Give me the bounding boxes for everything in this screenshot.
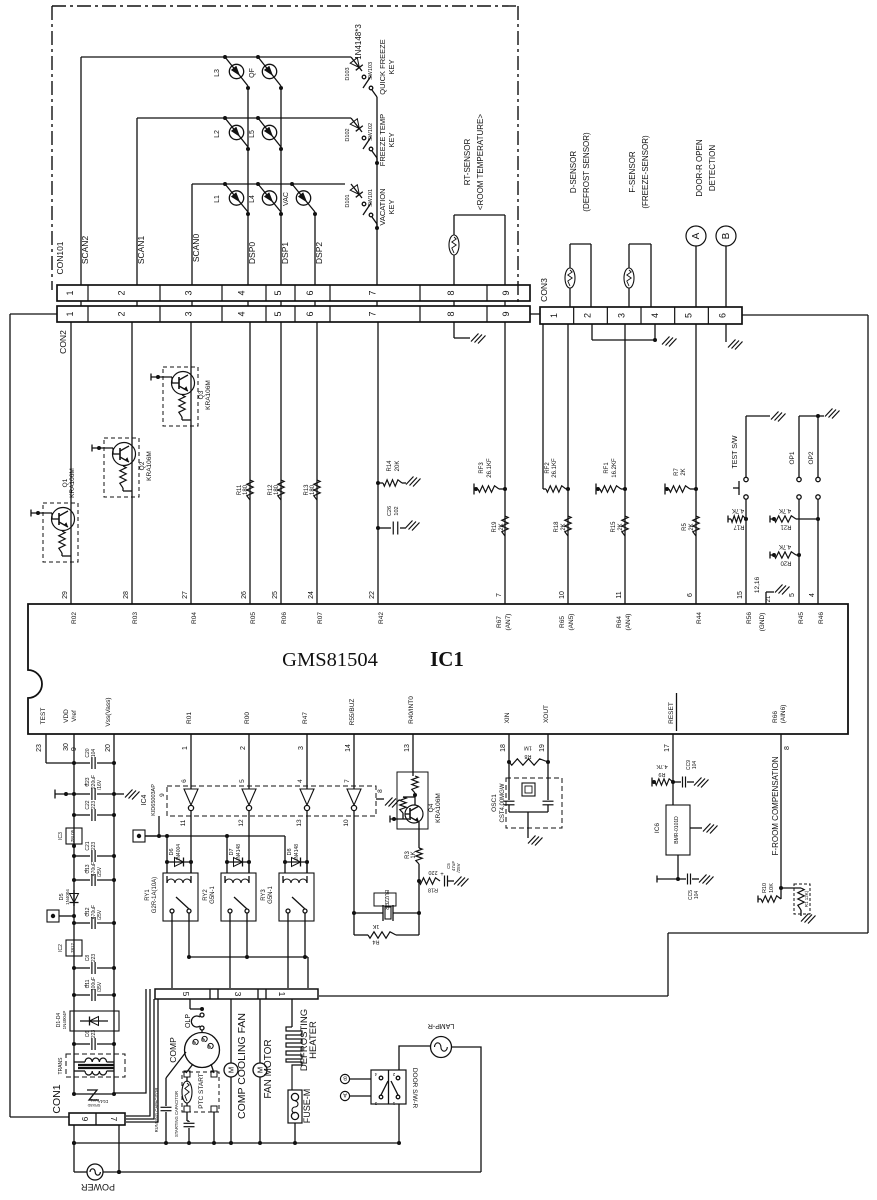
wire lamp to power bus [452, 1047, 482, 1172]
svg-text:18: 18 [500, 744, 507, 752]
svg-text:OSC1: OSC1 [491, 794, 498, 812]
resistor R3 1K [405, 829, 422, 864]
capacitor C20 104 [72, 748, 116, 769]
IC1 top inside port labels [71, 612, 825, 632]
resistor R4 1K [354, 913, 419, 945]
defrosting heater [286, 999, 319, 1090]
wire key return column to pin7 [375, 100, 379, 285]
motor M fan motor [253, 999, 274, 1142]
microcontroller IC1 GMS81504 [28, 604, 848, 734]
svg-text:R67: R67 [496, 616, 503, 628]
svg-text:10: 10 [343, 819, 350, 827]
svg-text:/25V: /25V [97, 909, 103, 920]
svg-text:22: 22 [369, 591, 376, 599]
resistor R9 4.7K [652, 763, 673, 787]
wire CON3 pin3 to IC pin11 with RF1 16.2KF / R15 2K [596, 324, 628, 604]
svg-text:21: 21 [766, 595, 772, 602]
capacitor C23 220uF/16V [72, 775, 116, 800]
diode D7 IN4148 [225, 836, 251, 873]
diode D8 IN4148 [283, 836, 309, 873]
wire SCAN0 rail row3 [192, 184, 345, 285]
svg-text:(GND): (GND) [759, 613, 766, 632]
svg-text:POWER: POWER [81, 1182, 116, 1192]
svg-text:7812: 7812 [70, 942, 75, 953]
svg-text:VAC: VAC [283, 192, 290, 206]
wire IC1 pin13 to Q4 [412, 734, 414, 776]
svg-text:180: 180 [274, 484, 280, 495]
svg-text:24: 24 [308, 591, 315, 599]
svg-text:10: 10 [559, 591, 566, 599]
svg-text:D101: D101 [345, 194, 351, 207]
svg-text:RF3: RF3 [479, 462, 485, 474]
Vref terminal stub [55, 790, 74, 799]
svg-text:15: 15 [737, 591, 744, 599]
outer border right side loop [319, 315, 868, 996]
svg-text:QF: QF [249, 68, 256, 78]
svg-text:4: 4 [297, 779, 304, 783]
svg-text:6: 6 [305, 311, 315, 316]
svg-text:R56: R56 [746, 612, 753, 624]
svg-text:27: 27 [182, 591, 189, 599]
svg-text:DOOR-R OPEN: DOOR-R OPEN [695, 139, 704, 197]
svg-text:4.7K: 4.7K [779, 507, 791, 513]
svg-text:R8: R8 [524, 753, 531, 759]
wire RESET pin17 [671, 734, 675, 805]
F-SENSOR thermistor loop [624, 244, 651, 307]
svg-text:G5N-1: G5N-1 [268, 886, 274, 904]
resistor R10 10K [758, 883, 781, 903]
svg-text:7: 7 [368, 311, 378, 316]
svg-text:(AN7): (AN7) [505, 614, 512, 631]
svg-text:3: 3 [184, 290, 194, 295]
overload protector OLP [185, 1013, 204, 1033]
svg-text:4: 4 [237, 290, 247, 295]
terminal pad near D5 [47, 910, 76, 922]
capacitor C21 223 [72, 841, 116, 862]
svg-text:5: 5 [684, 313, 694, 318]
svg-text:11: 11 [616, 591, 623, 598]
svg-text:Vss(Vass): Vss(Vass) [105, 697, 112, 726]
wire DSP0 column [246, 86, 250, 285]
wire below IC6 [657, 855, 680, 883]
svg-text:SCAN0: SCAN0 [191, 234, 201, 263]
svg-text:KRA106M: KRA106M [205, 380, 212, 410]
svg-text:TEST: TEST [40, 708, 47, 725]
inverter element pins 7/10 [343, 779, 361, 827]
svg-text:8: 8 [784, 746, 791, 750]
svg-text:104: 104 [692, 761, 698, 770]
resistor R11 180 [237, 480, 253, 500]
connector CON101 [55, 241, 530, 301]
svg-text:26.1KF: 26.1KF [552, 458, 558, 478]
svg-text:IN4004: IN4004 [176, 844, 182, 860]
svg-text:RF1: RF1 [604, 462, 610, 474]
svg-text:GMS81504: GMS81504 [282, 649, 378, 671]
regulator IC2 7812 [58, 940, 82, 956]
svg-text:DOOR S/W-R: DOOR S/W-R [411, 1068, 418, 1109]
svg-text:RESET: RESET [668, 702, 675, 724]
svg-text:R45: R45 [798, 612, 805, 624]
wire CON3 pin6 (B) to ground [726, 324, 743, 350]
svg-text:G2R-1A(10A): G2R-1A(10A) [152, 877, 158, 913]
capacitor C13 470uF/25V [72, 862, 116, 886]
svg-text:TEST S/W: TEST S/W [732, 435, 739, 468]
svg-text:180: 180 [310, 484, 316, 495]
starting capacitor [174, 1091, 195, 1142]
svg-text:(AN5): (AN5) [568, 614, 575, 631]
svg-text:OLP: OLP [185, 1014, 192, 1028]
svg-text:17: 17 [664, 744, 671, 752]
wire POWER bus [103, 1125, 481, 1174]
svg-text:L4: L4 [249, 195, 256, 203]
running capacitor [154, 1052, 186, 1142]
capacitor CC9 104 [673, 760, 709, 788]
wire IC1 pin23 TEST down [46, 734, 74, 763]
svg-text:R65: R65 [559, 616, 566, 628]
connector CON1 [51, 1084, 125, 1125]
resistor 220 and capacitor C5 47uF/25V to ground [419, 861, 469, 893]
svg-text:CON2: CON2 [58, 330, 68, 354]
svg-text:R00: R00 [244, 712, 251, 724]
resistor R17 4.7K [728, 507, 748, 530]
svg-text:KRA106M: KRA106M [146, 451, 153, 481]
label D-SENSOR (DEFROST SENSOR) [569, 132, 591, 212]
svg-text:3: 3 [616, 313, 626, 318]
svg-text:3: 3 [184, 311, 194, 316]
resistor R13 180 [304, 480, 320, 500]
svg-text:1: 1 [65, 290, 75, 295]
svg-text:R10: R10 [762, 883, 768, 893]
svg-text:R47: R47 [302, 712, 309, 724]
inverter element pins 5/12 [238, 779, 256, 827]
IC1 bottom inside port labels [40, 693, 787, 731]
svg-text:B: B [721, 232, 732, 239]
resistor R14 20K with ground [376, 460, 421, 487]
svg-text:IC6: IC6 [654, 823, 661, 834]
svg-text:CON1: CON1 [51, 1084, 63, 1113]
relay RY2 G5N-1 [203, 816, 256, 988]
svg-text:20K: 20K [395, 461, 401, 472]
svg-text:D7: D7 [229, 848, 235, 855]
diode D101 and switch SW101 (vacation key) [345, 184, 377, 227]
capacitor C11 100uF/35V [72, 977, 116, 1001]
relay RY3 G5N-1 [261, 816, 314, 988]
svg-text:R4: R4 [372, 939, 379, 945]
svg-text:R1 12K): R1 12K) [804, 890, 809, 907]
IC1 pin 12,16/21 ground net [766, 585, 790, 605]
IC4 pin8 to ground [376, 789, 400, 808]
buzzer BUZZER [352, 816, 419, 921]
svg-text:5: 5 [273, 311, 283, 316]
svg-text:R15: R15 [611, 521, 617, 533]
svg-text:30: 30 [63, 743, 70, 751]
svg-text:5: 5 [181, 992, 191, 997]
capacitor C22 223 [72, 800, 116, 821]
svg-text:4: 4 [237, 311, 247, 316]
svg-text:D14A: D14A [98, 1099, 109, 1104]
svg-text:1: 1 [549, 313, 559, 318]
capacitor C6 223 [72, 1030, 116, 1050]
resonator OSC1 CST4.00MGW [491, 762, 562, 846]
svg-text:DSP0: DSP0 [247, 242, 257, 264]
svg-text:VDD: VDD [63, 709, 70, 723]
svg-text:R02: R02 [71, 612, 78, 624]
svg-text:9: 9 [80, 1117, 89, 1122]
relay RY1 G2R-1A(10A) [145, 816, 198, 988]
svg-text:RY2: RY2 [203, 889, 209, 901]
svg-text:R06: R06 [281, 612, 288, 624]
svg-text:16.2KF: 16.2KF [612, 458, 618, 478]
svg-text:/16V: /16V [97, 779, 103, 790]
svg-text:R9: R9 [658, 771, 665, 777]
svg-text:2: 2 [240, 746, 247, 750]
svg-text:Q1: Q1 [62, 478, 69, 487]
svg-text:D-SENSOR: D-SENSOR [569, 151, 578, 193]
wire CON2 pin5 down to IC1 [280, 322, 282, 604]
LED L3 [214, 55, 248, 86]
reset IC6 BMR-0101D [654, 805, 718, 855]
switch TEST S/W [732, 412, 786, 605]
wire IC1 pin2 to driver [248, 734, 250, 789]
svg-text:L5: L5 [249, 130, 256, 138]
wire CON3 pin2 to ground junction [592, 324, 677, 347]
svg-text:DETECTION: DETECTION [708, 145, 717, 191]
wire CON2 right to CON3 [530, 313, 540, 315]
resistor R12 180 [268, 480, 284, 500]
svg-text:7: 7 [109, 1117, 118, 1122]
signal labels SCAN2 SCAN1 SCAN0 DSP0 DSP1 DSP2 [80, 234, 324, 265]
svg-text:R17: R17 [733, 524, 745, 530]
svg-text:R19: R19 [492, 521, 498, 533]
fuse FUSE-M [288, 1089, 312, 1142]
connector CON3 [539, 278, 742, 324]
capacitor C8 223 [72, 954, 116, 974]
svg-text:R20: R20 [780, 560, 792, 566]
svg-text:8: 8 [446, 290, 456, 295]
svg-text:RF2: RF2 [545, 462, 551, 474]
relay coil supply bus [145, 834, 285, 838]
svg-text:20: 20 [105, 744, 112, 752]
svg-text:2K: 2K [561, 523, 567, 530]
IC4 pin9 common to pad [133, 793, 166, 842]
svg-text:4: 4 [809, 593, 816, 597]
svg-text:SW101: SW101 [368, 189, 374, 207]
svg-text:R5: R5 [682, 523, 688, 531]
svg-text:COMP: COMP [168, 1037, 178, 1063]
IC1 top pin numbers [62, 576, 816, 602]
node B door detection [716, 226, 736, 307]
wire CON2 pin1 down to IC1 [70, 322, 72, 604]
svg-text:FREEZE TEMP: FREEZE TEMP [378, 114, 387, 166]
wire CON3 pin5 (A) to IC pin6 with R7 2K / R5 2K [665, 324, 699, 604]
diode D103 and switch SW103 (quick freeze key) [345, 57, 377, 100]
svg-text:25: 25 [272, 591, 279, 599]
wire CON2 pin8 to ground [454, 322, 486, 344]
wire Q4 emitter chain [417, 864, 421, 915]
svg-text:STARTING CAPACITOR: STARTING CAPACITOR [174, 1091, 179, 1137]
wire main bus lower [72, 1125, 399, 1172]
label VACATION KEY [378, 188, 396, 225]
svg-text:/25V: /25V [456, 863, 461, 872]
svg-text:D8: D8 [287, 848, 293, 855]
svg-text:B: B [343, 1075, 347, 1081]
svg-text:R7: R7 [674, 468, 680, 476]
svg-text:R40/INT0: R40/INT0 [408, 696, 415, 724]
jumper OP1 [789, 416, 801, 604]
starter PTC START with terminals [182, 1064, 219, 1142]
jumper OP2 [799, 409, 840, 605]
svg-text:7: 7 [368, 290, 378, 295]
svg-text:4.7K: 4.7K [779, 543, 791, 549]
wire SCAN2 rail row1 [81, 57, 351, 285]
svg-text:F-ROOM COMPENSATION: F-ROOM COMPENSATION [771, 756, 780, 855]
LED L5 [249, 116, 281, 147]
svg-text:R14: R14 [387, 460, 393, 472]
wire XIN [507, 734, 511, 764]
junction line above CON1 with varistor VA1 D14A [72, 1090, 116, 1107]
svg-text:FAN MOTOR: FAN MOTOR [263, 1039, 274, 1098]
svg-text:3: 3 [298, 746, 305, 750]
svg-text:DSP2: DSP2 [314, 242, 324, 264]
wire VDD rail [73, 734, 75, 1094]
RT-SENSOR thermistor loop [449, 215, 505, 285]
svg-text:KRA106M: KRA106M [69, 468, 76, 498]
svg-text:1N4148*3: 1N4148*3 [354, 24, 363, 60]
svg-text:9: 9 [159, 793, 166, 797]
LED VAC [283, 182, 315, 212]
nested routing wires from CON1 to bar [115, 989, 158, 1122]
svg-text:KEY: KEY [387, 59, 396, 74]
capacitor CC5 104 [678, 874, 714, 901]
svg-text:IC4: IC4 [141, 794, 148, 805]
wire IC1 pin1 to driver [190, 734, 192, 789]
svg-text:5: 5 [273, 290, 283, 295]
svg-text:XIN: XIN [504, 712, 511, 723]
svg-text:OP2: OP2 [808, 451, 815, 464]
svg-text:7: 7 [496, 593, 503, 597]
svg-text:R44: R44 [696, 612, 703, 624]
wire CON2 left to border [10, 313, 57, 315]
svg-text:2: 2 [583, 313, 593, 318]
svg-text:19: 19 [539, 744, 546, 752]
svg-text:26.1KF: 26.1KF [487, 458, 493, 478]
resistor R8 1M [509, 745, 548, 766]
diode D102 and switch SW102 (freeze temp key) [345, 118, 377, 161]
svg-text:(DEFROST SENSOR): (DEFROST SENSOR) [582, 132, 591, 212]
svg-text:104: 104 [694, 891, 700, 900]
svg-text:KEY: KEY [387, 132, 396, 147]
svg-text:TRANS: TRANS [58, 1057, 64, 1075]
label DOOR-R OPEN DETECTION [695, 139, 717, 197]
LED L1 [214, 182, 248, 212]
wire XOUT [546, 734, 550, 764]
svg-text:R55/BUZ: R55/BUZ [349, 699, 356, 726]
relay common wire [187, 955, 308, 988]
svg-text:R64: R64 [616, 616, 623, 628]
svg-text:G5N-1: G5N-1 [210, 886, 216, 904]
lamp LAMP-R [428, 1022, 454, 1058]
svg-text:4.7K: 4.7K [656, 763, 668, 769]
wire CON2 pin9 down to IC1 pin7 [504, 322, 506, 604]
svg-text:4.7K: 4.7K [732, 507, 744, 513]
svg-text:RUNNING CAPACITOR: RUNNING CAPACITOR [154, 1088, 159, 1133]
svg-text:DSP1: DSP1 [280, 242, 290, 264]
svg-text:2K: 2K [499, 523, 505, 530]
svg-text:CON3: CON3 [539, 278, 549, 302]
wire DSP1 column [279, 86, 283, 285]
svg-text:1M: 1M [524, 745, 532, 751]
svg-text:Vref: Vref [71, 710, 78, 722]
svg-text:5: 5 [239, 779, 246, 783]
svg-text:IN4148: IN4148 [236, 844, 242, 860]
svg-text:IC3: IC3 [58, 832, 64, 840]
svg-text:14: 14 [345, 744, 352, 752]
driver array IC4 KID65003AP dashed box [141, 784, 376, 816]
svg-text:SW103: SW103 [368, 62, 374, 80]
svg-text:9: 9 [501, 290, 511, 295]
wire door switch to lamp [399, 1046, 430, 1070]
resistor R21 4.7K [770, 507, 820, 530]
svg-text:F-SENSOR: F-SENSOR [628, 151, 637, 193]
pin stubs between CON101 and CON2 [81, 301, 505, 306]
LED L4 [249, 182, 281, 212]
resistor R20 4.7K [770, 543, 801, 566]
svg-text:1K: 1K [372, 923, 379, 929]
svg-text:CON101: CON101 [55, 241, 65, 274]
wire CON2 pin3 down to IC1 [190, 322, 192, 604]
bridge rectifier D1-D4 1N4004P [56, 1011, 119, 1031]
bus junction dots [72, 1141, 297, 1174]
LED QF [249, 55, 281, 86]
svg-text:BMR-0101D: BMR-0101D [674, 816, 680, 844]
svg-text:Q3: Q3 [198, 390, 205, 399]
outer border left side [10, 314, 69, 1117]
capacitor C12 470uF/25V [72, 905, 116, 929]
svg-text:R18: R18 [428, 887, 438, 893]
resistor R1 12K dashed option [781, 884, 816, 924]
svg-text:IC1: IC1 [430, 647, 464, 671]
svg-text:1N4004: 1N4004 [65, 889, 70, 905]
svg-text:HEATER: HEATER [308, 1021, 319, 1059]
svg-text:KRA106M: KRA106M [435, 793, 442, 823]
svg-text:R04: R04 [191, 612, 198, 624]
svg-text:D102: D102 [345, 128, 351, 141]
svg-text:223: 223 [91, 801, 97, 810]
svg-text:IN4148: IN4148 [294, 844, 300, 860]
svg-text:PTC START: PTC START [198, 1073, 205, 1109]
transistor Q1 KRA106M [31, 468, 78, 562]
svg-text:<ROOM TEMPERATURE>: <ROOM TEMPERATURE> [476, 114, 485, 210]
wire CON3 right to outer border [742, 314, 868, 316]
svg-text:/25V: /25V [97, 866, 103, 877]
svg-text:R21: R21 [780, 524, 792, 530]
wire DSP2 column [313, 212, 317, 285]
svg-text:R66: R66 [772, 711, 779, 723]
label F-SENSOR (FREEZE-SENSOR) [628, 135, 650, 209]
ground at Vss near C23 [114, 790, 140, 800]
capacitor C26 102 with ground [376, 506, 420, 535]
svg-text:SW102: SW102 [368, 123, 374, 141]
svg-text:13: 13 [296, 819, 303, 827]
label F-ROOM COMPENSATION [771, 756, 780, 855]
svg-text:223: 223 [91, 1030, 97, 1039]
svg-text:Q2: Q2 [139, 461, 146, 470]
wire CON2 pin2 down to IC1 [131, 322, 133, 604]
svg-text:A: A [691, 232, 702, 239]
svg-text:VACATION: VACATION [378, 188, 387, 225]
svg-text:R05: R05 [250, 612, 257, 624]
motor M comp cooling fan [224, 999, 248, 1142]
